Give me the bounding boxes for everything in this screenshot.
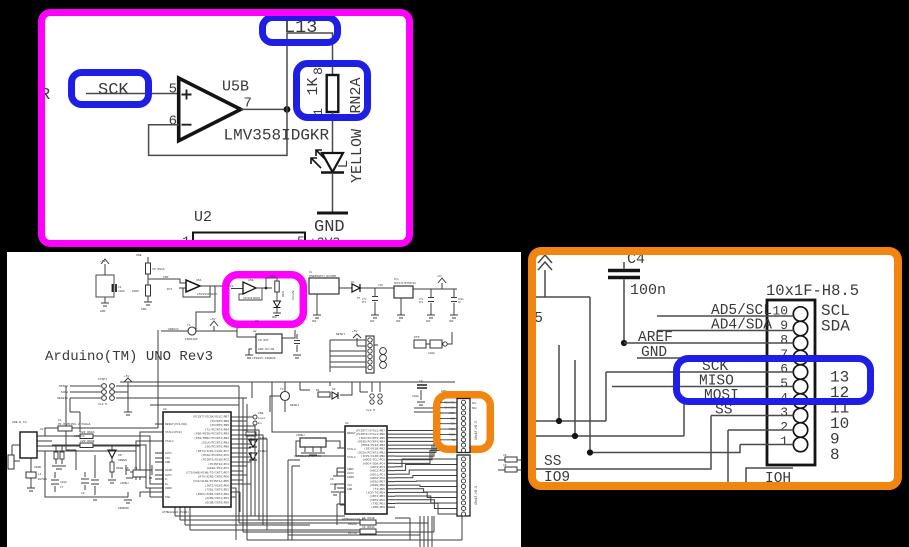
svg-text:AREF: AREF [449, 412, 456, 415]
svg-text:C8: C8 [81, 492, 85, 495]
svg-text:(ADC0)PC0: (ADC0)PC0 [369, 476, 385, 480]
svg-text:GND: GND [272, 316, 277, 319]
svg-text:XTAL1: XTAL1 [165, 440, 174, 443]
svg-text:6: 6 [169, 114, 177, 130]
svg-text:(OC0B/INT0)PD0: (OC0B/INT0)PD0 [205, 501, 230, 505]
svg-text:MOSI: MOSI [449, 433, 456, 436]
svg-text:(INT5/AIN3)PD4: (INT5/AIN3)PD4 [205, 483, 230, 487]
svg-text:(ADC1)PC1: (ADC1)PC1 [369, 472, 385, 476]
svg-text:GND: GND [312, 320, 317, 323]
svg-text:YELLOW: YELLOW [349, 129, 366, 183]
svg-text:SCK: SCK [228, 285, 234, 288]
svg-text:1: 1 [780, 434, 788, 449]
svg-text:CMP: CMP [163, 276, 169, 279]
svg-text:USB: USB [136, 254, 142, 257]
svg-text:En: En [258, 422, 262, 425]
svg-text:16MHz: 16MHz [120, 482, 129, 485]
svg-text:U2: U2 [253, 330, 257, 333]
svg-text:U2: U2 [255, 320, 259, 323]
svg-text:(T1/PCINT4)PB4: (T1/PCINT4)PB4 [205, 427, 230, 431]
svg-text:IN OUT: IN OUT [258, 339, 269, 342]
svg-text:(OC1A/PCINT8)PC6: (OC1A/PCINT8)PC6 [201, 453, 229, 457]
svg-text:1x2 M: 1x2 M [366, 409, 375, 412]
svg-text:8: 8 [780, 333, 788, 348]
svg-text:(AIN1)PD7: (AIN1)PD7 [369, 480, 385, 484]
svg-text:LMV358IDGKR: LMV358IDGKR [224, 127, 330, 145]
svg-text:U5A: U5A [196, 279, 202, 282]
svg-text:SS: SS [544, 454, 561, 470]
svg-text:X1: X1 [309, 271, 313, 274]
svg-text:GND: GND [347, 488, 352, 491]
svg-text:1K: 1K [503, 464, 507, 467]
svg-text:GROUND: GROUND [118, 507, 129, 510]
svg-text:SDA: SDA [472, 407, 477, 410]
svg-text:RN2B 1K: RN2B 1K [116, 467, 129, 470]
svg-text:(INT4/ICP1/CLK0)PC7: (INT4/ICP1/CLK0)PC7 [196, 449, 229, 453]
svg-text:AD4/SDA: AD4/SDA [711, 318, 772, 334]
svg-text:(PCINT7/XTAL2)PB7: (PCINT7/XTAL2)PB7 [356, 429, 386, 433]
svg-text:(RXD1/AIN1/INT2)PD2: (RXD1/AIN1/INT2)PD2 [196, 492, 229, 496]
svg-text:(OC1A/PCINT1)PB1: (OC1A/PCINT1)PB1 [357, 450, 385, 454]
svg-text:(MOSI/OC2A)PB3: (MOSI/OC2A)PB3 [361, 443, 386, 447]
svg-text:C1: C1 [118, 286, 122, 289]
svg-text:GND: GND [370, 320, 375, 323]
svg-text:SCL: SCL [472, 402, 477, 405]
svg-text:GND: GND [100, 310, 106, 313]
svg-text:(ADC5/SCL)PC5: (ADC5/SCL)PC5 [362, 458, 385, 462]
svg-text:GND: GND [641, 345, 667, 361]
svg-text:PAD: PAD [165, 496, 170, 499]
svg-text:ICSP1: ICSP1 [98, 378, 107, 381]
svg-text:100n: 100n [118, 290, 125, 293]
svg-text:(AIN0/INT1)PD1: (AIN0/INT1)PD1 [205, 496, 230, 500]
svg-text:M7: M7 [357, 297, 361, 300]
svg-text:AREF: AREF [638, 330, 673, 346]
svg-text:(TXD)PD1: (TXD)PD1 [371, 502, 385, 506]
svg-text:M8RXD: M8RXD [348, 523, 357, 526]
svg-text:(SCLK/PCINT1)PB1: (SCLK/PCINT1)PB1 [201, 440, 229, 444]
svg-text:10x1F-H8.5: 10x1F-H8.5 [474, 421, 478, 440]
svg-text:D-: D- [165, 478, 169, 481]
svg-text:GND: GND [396, 320, 401, 323]
svg-text:(ADC2)PC2: (ADC2)PC2 [369, 469, 385, 473]
svg-text:(SS/OC1B)PB2: (SS/OC1B)PB2 [364, 447, 385, 451]
svg-text:NCP1117ST50T3G: NCP1117ST50T3G [394, 282, 416, 285]
svg-text:(INT0)PD2: (INT0)PD2 [369, 498, 385, 502]
svg-text:1K RN4B: 1K RN4B [362, 517, 375, 520]
svg-text:RESET(PC1/DW): RESET(PC1/DW) [165, 422, 188, 426]
svg-text:GND: GND [450, 417, 455, 420]
svg-text:YELLOW: YELLOW [292, 290, 295, 300]
svg-text:AREF: AREF [347, 468, 354, 471]
svg-text:TXLED: TXLED [258, 437, 267, 440]
svg-text:POWERSUPPLY_DC21MMX: POWERSUPPLY_DC21MMX [309, 275, 337, 278]
svg-text:PC1: PC1 [362, 301, 367, 304]
svg-text:+5V: +5V [210, 318, 216, 321]
svg-text:3x2 M: 3x2 M [98, 403, 107, 406]
svg-text:100n: 100n [60, 481, 67, 484]
svg-text:(ADC4/SDA)PC4: (ADC4/SDA)PC4 [362, 461, 385, 465]
svg-text:(XCK/T0)PD4: (XCK/T0)PD4 [366, 491, 385, 495]
svg-text:boot: boot [258, 416, 265, 420]
svg-text:(PCINT10)PC4: (PCINT10)PC4 [208, 462, 229, 466]
svg-text:5: 5 [780, 376, 788, 391]
svg-text:VCC: VCC [165, 457, 170, 460]
svg-text:(RTS/AIN5/INT6)PD6: (RTS/AIN5/INT6)PD6 [198, 475, 229, 479]
svg-text:BLM21: BLM21 [38, 478, 47, 481]
svg-text:USBVCC: USBVCC [74, 435, 85, 438]
svg-text:MISO2: MISO2 [59, 385, 68, 388]
svg-text:3: 3 [780, 405, 788, 420]
svg-text:XTAL2: XTAL2 [347, 448, 356, 451]
svg-text:(MISO/PCINT4)PB4: (MISO/PCINT4)PB4 [357, 439, 385, 443]
svg-text:GND: GND [165, 461, 170, 464]
svg-text:SCK: SCK [450, 423, 455, 426]
svg-text:SCK: SCK [98, 81, 129, 100]
svg-text:U5B: U5B [248, 279, 254, 282]
svg-text:RESET: RESET [290, 404, 299, 407]
svg-text:LMV358IDGKR: LMV358IDGKR [243, 297, 261, 300]
svg-text:10x1F-H8.5: 10x1F-H8.5 [474, 486, 478, 505]
svg-text:16MHz: 16MHz [296, 434, 305, 437]
svg-text:UGND: UGND [34, 466, 41, 469]
svg-text:USB: USB [258, 412, 264, 415]
svg-text:M8TXD: M8TXD [348, 532, 357, 535]
svg-text:GND: GND [426, 320, 431, 323]
svg-text:1K RN4A: 1K RN4A [362, 526, 375, 529]
svg-text:(T1)PD5: (T1)PD5 [373, 487, 385, 491]
svg-text:(PCINT9/OC1B)PC5: (PCINT9/OC1B)PC5 [201, 458, 229, 462]
svg-text:U3: U3 [163, 408, 167, 411]
svg-text:SCK2: SCK2 [61, 391, 68, 394]
svg-text:(ADC3)PC3: (ADC3)PC3 [369, 465, 385, 469]
svg-text:MISO: MISO [449, 428, 456, 431]
svg-text:GND NC/FB: GND NC/FB [258, 347, 274, 351]
svg-text:(PCINT7/OC0A/OC1C)PB7: (PCINT7/OC0A/OC1C)PB7 [193, 415, 230, 419]
svg-text:(SS/PCINT0)PB0: (SS/PCINT0)PB0 [205, 445, 230, 449]
svg-text:U4: U4 [345, 422, 349, 425]
svg-text:D1: D1 [351, 281, 355, 284]
svg-text:(PD0/MISO/PCINT3)PB3: (PD0/MISO/PCINT3)PB3 [194, 432, 229, 436]
svg-text:100n: 100n [630, 282, 666, 299]
svg-text:RESET2: RESET2 [57, 397, 68, 400]
svg-text:(PCINT6/XTAL1)PB6: (PCINT6/XTAL1)PB6 [356, 432, 386, 436]
svg-text:(PCINT6)PB6: (PCINT6)PB6 [210, 419, 229, 423]
svg-text:1K: 1K [503, 454, 507, 457]
svg-text:1K: 1K [305, 77, 322, 95]
svg-text:+5V: +5V [437, 275, 442, 278]
svg-text:8: 8 [311, 67, 326, 75]
svg-text:X2: X2 [40, 428, 44, 431]
svg-text:+5V: +5V [100, 260, 106, 263]
svg-text:PC2: PC2 [419, 301, 424, 304]
svg-text:MF-MSMF050-2 500mA: MF-MSMF050-2 500mA [58, 423, 91, 426]
svg-text:AGND: AGND [347, 476, 354, 479]
svg-text:AVCC: AVCC [347, 472, 354, 475]
svg-text:D+: D+ [165, 483, 169, 486]
svg-text:(AIN0)PD6: (AIN0)PD6 [369, 483, 385, 487]
svg-text:IC1: IC1 [394, 278, 399, 281]
svg-text:(PDI/MOSI/PCINT2)PB2: (PDI/MOSI/PCINT2)PB2 [194, 436, 229, 440]
svg-text:RXLED: RXLED [258, 450, 267, 453]
svg-text:300K: 300K [132, 290, 139, 293]
svg-text:AVCC: AVCC [165, 452, 172, 455]
svg-text:LMV358IDGKR: LMV358IDGKR [197, 293, 217, 296]
svg-text:Arduino(TM) UNO Rev3: Arduino(TM) UNO Rev3 [45, 349, 213, 365]
svg-text:R1: R1 [316, 389, 320, 392]
svg-text:(TXD1/INT3)PD3: (TXD1/INT3)PD3 [205, 488, 230, 492]
svg-text:100n: 100n [428, 352, 435, 355]
svg-text:F1: F1 [58, 419, 62, 422]
svg-text:LP2985-33DBVR: LP2985-33DBVR [252, 357, 276, 360]
svg-text:1M RN1A: 1M RN1A [152, 268, 165, 271]
svg-text:L13: L13 [270, 275, 275, 278]
svg-text:C4: C4 [419, 380, 423, 383]
svg-text:(INT1)PD3: (INT1)PD3 [369, 494, 385, 498]
svg-text:GREEN: GREEN [118, 459, 127, 462]
svg-text:T2: T2 [280, 388, 284, 391]
svg-text:100n: 100n [330, 483, 337, 486]
svg-text:CSTCE16M0V53-R0: CSTCE16M0V53-R0 [294, 455, 321, 458]
svg-text:Y1: Y1 [134, 467, 138, 470]
svg-text:GND: GND [141, 308, 147, 311]
svg-text:USB-B_TH: USB-B_TH [12, 421, 27, 424]
svg-text:VCC: VCC [347, 484, 352, 487]
svg-text:(PCINT5)PB5: (PCINT5)PB5 [210, 423, 229, 427]
svg-text:(ICP1/CLKO)PB0: (ICP1/CLKO)PB0 [361, 454, 386, 458]
svg-text:(CTS/HWB/AIN6/TO/INT7)PD7: (CTS/HWB/AIN6/TO/INT7)PD7 [186, 470, 230, 474]
svg-text:C6: C6 [330, 478, 334, 481]
svg-text:(XCK/AIN4/PCINT12)PD5: (XCK/AIN4/PCINT12)PD5 [193, 479, 230, 483]
svg-text:ATMEGA8U2-MU(R): ATMEGA8U2-MU(R) [162, 510, 189, 514]
svg-text:DTR: DTR [414, 336, 420, 339]
svg-text:100n: 100n [412, 395, 419, 398]
svg-text:RN2A: RN2A [282, 290, 285, 297]
svg-text:(SCK/PCINT5)PB5: (SCK/PCINT5)PB5 [359, 436, 385, 440]
svg-text:2: 2 [780, 420, 788, 435]
svg-text:ON: ON [118, 454, 122, 457]
svg-text:1K: 1K [244, 429, 248, 432]
svg-text:+5V: +5V [352, 330, 358, 333]
svg-text:RESET: RESET [336, 333, 345, 336]
svg-text:XTAL2(PC0): XTAL2(PC0) [165, 430, 183, 434]
svg-text:XTAL1: XTAL1 [347, 456, 356, 459]
svg-text:(AIN2/PC2)PC2: (AIN2/PC2)PC2 [206, 466, 229, 470]
svg-text:SDA: SDA [821, 318, 850, 336]
svg-text:UGND: UGND [165, 487, 172, 490]
svg-text:U5B: U5B [222, 79, 249, 96]
svg-text:UCAP: UCAP [165, 469, 172, 472]
svg-text:SS: SS [452, 439, 456, 442]
svg-text:U2: U2 [194, 209, 212, 226]
svg-text:T1: T1 [187, 324, 191, 327]
svg-text:+5V: +5V [124, 375, 130, 378]
svg-text:5: 5 [169, 82, 177, 98]
svg-text:22R RN3B: 22R RN3B [80, 440, 95, 443]
svg-text:D2: D2 [332, 388, 336, 391]
svg-text:8: 8 [830, 446, 840, 464]
svg-text:L1: L1 [38, 473, 42, 476]
svg-text:RN2A: RN2A [348, 77, 365, 113]
svg-text:3V3: 3V3 [167, 288, 173, 291]
svg-text:FDN340P: FDN340P [185, 338, 198, 341]
svg-text:(RXD)PD0: (RXD)PD0 [371, 505, 385, 509]
svg-text:22R RN3A: 22R RN3A [80, 431, 95, 434]
svg-text:UVCC: UVCC [165, 474, 172, 477]
svg-text:VIN: VIN [378, 284, 383, 287]
svg-text:6: 6 [780, 362, 788, 377]
svg-text:USBVCC: USBVCC [168, 328, 179, 331]
svg-text:GND: GND [449, 320, 454, 323]
svg-text:10x1F-H8.5: 10x1F-H8.5 [766, 282, 859, 300]
svg-text:C7: C7 [60, 486, 64, 489]
